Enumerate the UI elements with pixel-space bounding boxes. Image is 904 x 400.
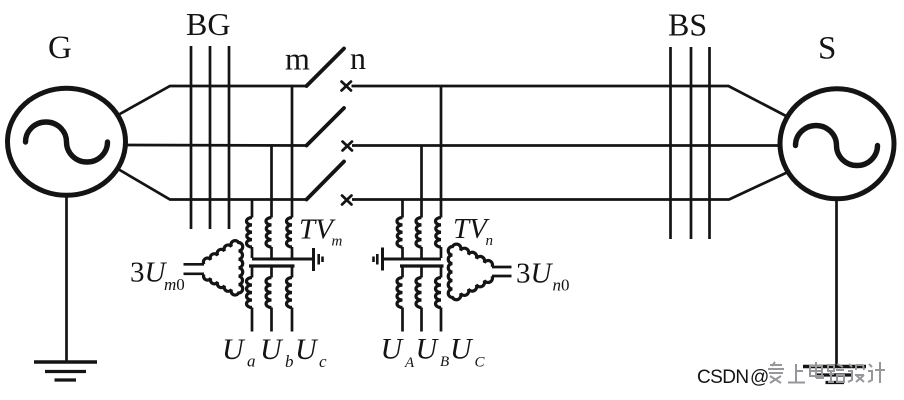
generator G xyxy=(8,88,126,195)
open contact marker x phase B xyxy=(343,142,353,151)
TVn primary neutral bar xyxy=(383,258,442,261)
TVn primary winding 1 xyxy=(397,218,403,248)
TVm secondary winding 3 xyxy=(291,266,294,278)
wire tap phase A to TVn xyxy=(440,86,443,218)
bus BS line 3 xyxy=(708,47,711,239)
watermark pseudo glyphs xyxy=(768,362,784,383)
svg-text:S: S xyxy=(818,31,836,67)
TVm secondary winding 1 xyxy=(251,266,254,278)
svg-text:B: B xyxy=(440,354,449,370)
ground (TVn neutral) xyxy=(374,248,383,271)
wire open-delta lead upper (TVn) xyxy=(492,266,512,269)
svg-text:b: b xyxy=(285,352,294,371)
wire open-delta lead lower (TVm) xyxy=(184,272,205,275)
svg-text:BG: BG xyxy=(186,6,230,42)
svg-text:BS: BS xyxy=(668,7,707,43)
wire tap phase B to TVn xyxy=(420,146,423,218)
svg-text:U: U xyxy=(295,333,319,366)
wire phase A left (G to switch m) xyxy=(118,86,307,115)
bus BG line 3 xyxy=(228,46,231,229)
svg-text:3U: 3U xyxy=(130,257,168,289)
TVn secondary star bar xyxy=(400,264,444,267)
disconnector blade phase C xyxy=(307,162,345,200)
wire open-delta lead upper (TVm) xyxy=(184,263,205,266)
open-delta winding (TVm tertiary) xyxy=(203,241,242,295)
open contact marker x phase A xyxy=(342,82,352,91)
disconnector blade phase A xyxy=(307,49,345,87)
svg-text:n0: n0 xyxy=(553,276,570,295)
svg-text:c: c xyxy=(319,352,327,371)
wire tap phase A to TVm xyxy=(291,86,294,218)
svg-text:m0: m0 xyxy=(164,275,185,294)
wire phase C right (n to S) xyxy=(352,172,788,200)
TVn primary winding 2 xyxy=(416,218,422,248)
bus BS line 1 xyxy=(669,47,672,239)
wire phase C left (G to switch m) xyxy=(118,169,307,200)
svg-text:m: m xyxy=(332,234,343,250)
wire phase B right (n to S) xyxy=(352,144,781,147)
TVn secondary winding 1 xyxy=(401,266,404,278)
TVm primary neutral bar xyxy=(252,258,314,261)
generator S xyxy=(780,89,894,199)
disconnector blade phase B xyxy=(307,108,345,146)
svg-text:n: n xyxy=(486,233,494,249)
svg-text:m: m xyxy=(285,41,310,77)
open-delta winding (TVn tertiary) xyxy=(448,244,492,300)
wire S to ground xyxy=(835,199,838,366)
open contact marker x phase C xyxy=(342,196,352,205)
TVm primary winding 2 xyxy=(266,218,272,248)
svg-text:a: a xyxy=(247,352,256,371)
TVm primary winding 3 xyxy=(287,218,293,248)
TVm secondary star bar xyxy=(249,264,295,267)
TVn primary winding 3 xyxy=(436,218,442,248)
svg-text:CSDN: CSDN xyxy=(697,367,748,388)
wire open-delta lead lower (TVn) xyxy=(492,275,512,278)
TVm primary winding 1 xyxy=(247,218,253,248)
svg-text:U: U xyxy=(381,333,405,366)
svg-text:U: U xyxy=(222,333,246,366)
wire G to ground xyxy=(65,195,68,362)
wire phase A right (n to S) xyxy=(352,86,789,117)
bus BG line 1 xyxy=(190,46,193,229)
wire tap phase C to TVm xyxy=(251,200,254,218)
ground (generator S) xyxy=(803,367,866,383)
svg-text:U: U xyxy=(260,333,284,366)
ground (generator G) xyxy=(34,362,97,380)
TVn secondary winding 2 xyxy=(420,266,423,278)
wire tap phase B to TVm xyxy=(270,146,273,218)
svg-text:C: C xyxy=(475,355,486,371)
svg-text:U: U xyxy=(450,333,474,366)
TVn secondary winding 3 xyxy=(440,266,443,278)
svg-text:U: U xyxy=(416,333,440,366)
bus BG line 2 xyxy=(209,46,212,229)
svg-text:G: G xyxy=(48,30,72,66)
wire phase B left (G to switch m) xyxy=(124,144,307,147)
svg-text:n: n xyxy=(350,40,366,76)
svg-text:A: A xyxy=(404,355,415,371)
bus BS line 2 xyxy=(690,47,693,239)
svg-text:3U: 3U xyxy=(516,258,554,290)
wire tap phase C to TVn xyxy=(401,200,404,218)
ground (TVm neutral) xyxy=(314,248,323,271)
svg-text:@: @ xyxy=(750,367,769,388)
TVm secondary winding 2 xyxy=(270,266,273,278)
